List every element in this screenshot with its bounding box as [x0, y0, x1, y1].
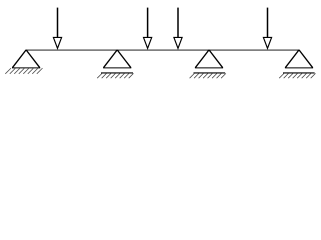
support D (roller) — [279, 50, 315, 78]
load arrow P2 — [144, 8, 152, 49]
support B (roller) — [97, 50, 133, 78]
load arrow P3 — [174, 8, 182, 49]
beam — [26, 49, 300, 51]
support C (roller) — [190, 50, 226, 78]
load arrow P4 — [263, 8, 271, 49]
load arrow P1 — [53, 8, 61, 49]
support A (pin) — [5, 50, 42, 74]
